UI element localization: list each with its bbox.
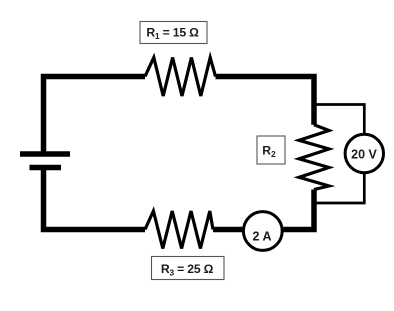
wire: voltmeter bottom branch: [314, 173, 364, 203]
svg-text:R3 = 25 Ω: R3 = 25 Ω: [161, 262, 214, 278]
resistor R2: [299, 125, 329, 190]
battery short plate: [30, 165, 62, 171]
svg-text:R1 = 15 Ω: R1 = 15 Ω: [146, 25, 199, 41]
wire: voltmeter top branch: [314, 105, 364, 135]
resistor R3: [145, 211, 213, 249]
wire: top right of R1 and down right side to R2: [216, 77, 315, 125]
battery long plate: [20, 151, 70, 157]
voltmeter circle: [345, 134, 383, 172]
ammeter circle: [243, 212, 282, 251]
label box R1 = 15 ohm: [140, 22, 207, 44]
label box R3 = 25 ohm: [152, 257, 225, 280]
svg-text:2 A: 2 A: [253, 230, 272, 244]
wire: right side below R2, bottom to ammeter: [284, 190, 315, 230]
resistor R1: [145, 58, 216, 97]
wire: left-top from battery top plate up and across top to R1: [44, 77, 146, 153]
wire: bottom between ammeter and R3: [213, 227, 242, 233]
svg-text:20 V: 20 V: [351, 147, 377, 161]
label box R2: [257, 136, 285, 164]
wire: bottom left of R3, up left side to battery bottom plate: [44, 170, 146, 230]
